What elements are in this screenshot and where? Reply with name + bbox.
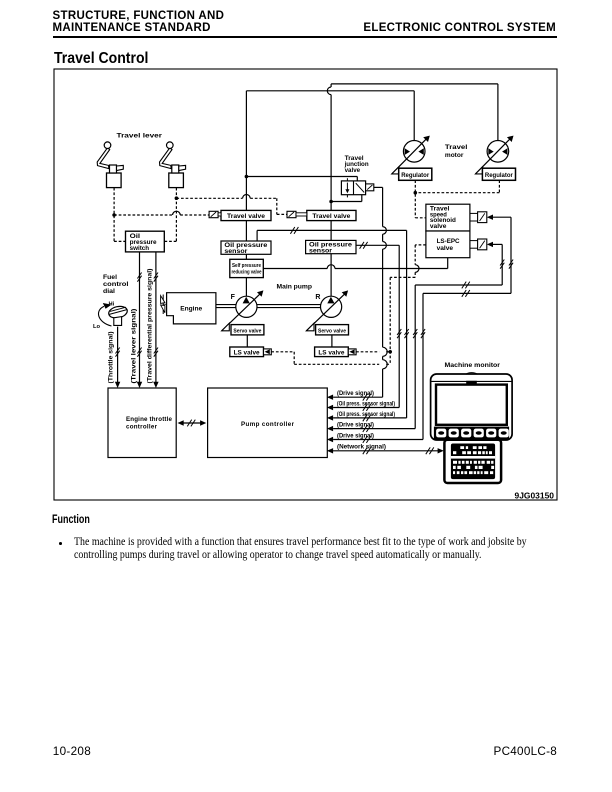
svg-text:Travel valve: Travel valve <box>227 213 265 220</box>
svg-text:sensor: sensor <box>224 248 248 255</box>
svg-text:(Travel lever signal): (Travel lever signal) <box>130 309 137 384</box>
machine monitor <box>431 362 512 483</box>
wire dashed LS-EPC pilot <box>390 245 426 364</box>
LS valve F <box>230 347 264 357</box>
wire junction valve drive signal <box>327 187 387 400</box>
svg-text:(Network signal): (Network signal) <box>337 444 386 451</box>
oil pressure sensor 2 <box>306 240 356 253</box>
LS-EPC valve <box>426 231 487 258</box>
travel valve 1 <box>221 210 271 220</box>
svg-text:Fuel: Fuel <box>103 274 117 281</box>
section title <box>54 50 148 68</box>
svg-text:motor: motor <box>445 152 464 159</box>
svg-text:switch: switch <box>130 245 150 252</box>
oil pressure switch <box>126 231 165 252</box>
engine <box>161 293 216 324</box>
svg-text:Travel valve: Travel valve <box>312 213 350 220</box>
svg-text:valve: valve <box>345 167 361 174</box>
wire to travel junction valve <box>246 176 357 178</box>
wire lever2 dashed drop <box>175 188 177 242</box>
footer page number <box>53 745 91 758</box>
wire pilot to travel valve 1 <box>114 214 173 216</box>
wire pump F to travel motor 1 <box>245 91 247 296</box>
svg-text:(Travel differential pressure: (Travel differential pressure signal) <box>146 269 153 384</box>
regulator 2 <box>482 168 515 180</box>
bullet <box>59 542 63 545</box>
svg-text:sensor: sensor <box>309 248 333 255</box>
svg-text:Self pressure: Self pressure <box>232 263 261 269</box>
wire pilot to travel valve 2 <box>176 197 242 199</box>
wire dashed LS valve F pilot <box>271 351 294 353</box>
wire travel differential pressure signal <box>155 252 157 382</box>
oil pressure sensor 1 <box>221 241 271 254</box>
shaft pump F to pump R <box>257 304 321 306</box>
footer model <box>494 745 558 758</box>
wire network signal <box>327 447 444 454</box>
travel lever 2 <box>160 142 186 188</box>
svg-text:controller: controller <box>126 423 158 430</box>
svg-text:Servo valve: Servo valve <box>233 329 262 335</box>
pump controller <box>208 388 328 458</box>
wire controller link <box>183 422 201 424</box>
servo valve R <box>316 325 349 335</box>
node LS pilot junction <box>388 350 392 354</box>
svg-text:LS valve: LS valve <box>234 350 260 357</box>
travel motor 2 <box>487 141 509 163</box>
LS valve R <box>315 347 349 357</box>
travel lever 1 <box>97 142 123 188</box>
svg-text:valve: valve <box>437 245 454 252</box>
svg-text:Main pump: Main pump <box>277 284 313 291</box>
travel speed solenoid valve <box>426 204 487 231</box>
wire LS-EPC drive signal <box>327 242 504 432</box>
diagram frame <box>54 69 557 500</box>
servo valve F <box>231 325 264 335</box>
travel motor 1 <box>403 141 425 163</box>
engine throttle controller <box>108 388 176 458</box>
shaft engine to pump F <box>216 304 236 306</box>
svg-text:(Throttle signal): (Throttle signal) <box>108 332 115 384</box>
svg-text:9JG03150: 9JG03150 <box>515 491 555 500</box>
svg-text:valve: valve <box>430 223 447 230</box>
svg-text:Lo: Lo <box>93 324 101 330</box>
wire self pressure to LS-EPC valve <box>263 258 447 269</box>
svg-text:F: F <box>231 294 236 301</box>
travel junction valve <box>341 178 373 197</box>
svg-text:reducing valve: reducing valve <box>232 269 262 275</box>
wire oil pressure sensor 2 signal <box>327 242 401 410</box>
self pressure reducing valve <box>230 259 263 277</box>
wire oil pressure sensor 1 signal <box>257 227 409 421</box>
svg-text:control: control <box>103 281 129 288</box>
main pump R <box>321 296 342 317</box>
Function heading <box>52 514 90 526</box>
svg-text:Regulator: Regulator <box>485 172 514 179</box>
svg-text:R: R <box>315 294 320 301</box>
header rule <box>53 36 557 38</box>
wire throttle signal <box>117 327 119 382</box>
svg-text:LS-EPC: LS-EPC <box>437 238 460 245</box>
wire lever1 dashed drop <box>113 188 115 242</box>
svg-text:Regulator: Regulator <box>401 172 430 179</box>
svg-text:Engine throttle: Engine throttle <box>126 416 173 423</box>
travel valve 2 <box>307 210 356 220</box>
svg-text:Machine monitor: Machine monitor <box>445 362 501 369</box>
wire travel lever signal <box>139 252 141 382</box>
function paragraph <box>74 536 527 561</box>
svg-text:Servo valve: Servo valve <box>318 329 347 335</box>
svg-text:Engine: Engine <box>180 306 202 313</box>
svg-text:dial: dial <box>103 288 115 295</box>
wire dashed LS valve R pilot <box>356 351 379 353</box>
svg-text:Travel: Travel <box>445 144 468 151</box>
main pump F <box>236 296 257 317</box>
regulator 1 <box>399 168 432 180</box>
svg-text:(Drive signal): (Drive signal) <box>337 390 374 397</box>
node junction valve return <box>329 200 333 204</box>
svg-text:Travel lever: Travel lever <box>117 132 163 139</box>
fuel control dial <box>93 274 129 330</box>
page header right <box>363 22 556 34</box>
svg-text:Pump controller: Pump controller <box>241 421 295 428</box>
svg-text:LS valve: LS valve <box>318 350 344 357</box>
wire travel speed solenoid drive signal <box>327 215 513 443</box>
node lever1 junction <box>112 213 116 217</box>
svg-text:(Drive signal): (Drive signal) <box>337 422 374 429</box>
node lever2 junction <box>175 196 179 200</box>
wire dashed regulator pilot <box>415 180 499 218</box>
node regulator pilot junction <box>414 191 418 195</box>
wire pump R to travel motor 2 <box>330 95 332 297</box>
node junction valve feed <box>245 175 249 179</box>
svg-text:(Drive signal): (Drive signal) <box>337 433 374 440</box>
page header left <box>53 10 225 34</box>
